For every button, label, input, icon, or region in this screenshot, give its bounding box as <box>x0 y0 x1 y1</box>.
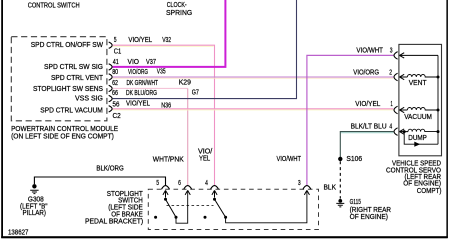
svg-text:K29: K29 <box>179 80 191 87</box>
stoplight pin 6 connector arc <box>184 186 192 190</box>
svg-text:SWITCH: SWITCH <box>118 198 143 205</box>
svg-text:SPRING: SPRING <box>166 10 192 17</box>
svg-text:OF ENGINE): OF ENGINE) <box>350 214 388 221</box>
svg-text:62: 62 <box>112 80 118 87</box>
servo pin 3 connector arc <box>394 52 398 60</box>
wire N36 VIO/YEL: PCM pin 56 to servo pin 1 <box>113 108 394 110</box>
svg-text:PEDAL BRACKET): PEDAL BRACKET) <box>85 219 143 226</box>
stoplight pin 3 connector arc <box>303 186 311 190</box>
svg-text:VIO/WHT: VIO/WHT <box>356 48 383 55</box>
svg-text:S106: S106 <box>346 156 362 163</box>
svg-text:2: 2 <box>389 70 392 77</box>
svg-text:138627: 138627 <box>8 230 28 237</box>
wire BLK/ORG: G308 to stoplight switch pin 5 <box>34 177 165 186</box>
svg-text:CLOCK-: CLOCK- <box>167 2 188 9</box>
stoplight pin 4 connector arc <box>211 186 219 190</box>
stoplight pin 4 arrow <box>212 190 217 197</box>
svg-text:80: 80 <box>112 69 118 76</box>
svg-text:BLK/ORG: BLK/ORG <box>96 166 123 173</box>
wire V35 orange tracer <box>113 77 394 79</box>
svg-text:WHT/PNK: WHT/PNK <box>153 157 184 164</box>
PCM connector pin 66 arc <box>109 95 112 101</box>
wire G7 DK BLU/ORG: PCM pin 66 up to VSS <box>113 0 297 99</box>
svg-text:BLK/LT BLU: BLK/LT BLU <box>351 124 387 131</box>
svg-text:VIO/ORG: VIO/ORG <box>128 69 148 76</box>
svg-text:4: 4 <box>205 180 208 187</box>
vehicle speed control servo box <box>399 44 442 155</box>
svg-text:VSS SIG: VSS SIG <box>75 95 103 102</box>
stoplight pin 3 arrow <box>304 190 309 195</box>
svg-text:56: 56 <box>113 101 120 108</box>
junction dot bus vacuum <box>437 109 440 112</box>
svg-text:VIO: VIO <box>128 59 140 66</box>
svg-text:VENT: VENT <box>409 80 428 87</box>
svg-text:G7: G7 <box>192 89 199 96</box>
ground G115 <box>338 199 342 203</box>
svg-text:CONTROL SWITCH: CONTROL SWITCH <box>28 3 80 10</box>
svg-text:VIO/WHT: VIO/WHT <box>277 156 302 163</box>
powertrain control module dashed box <box>11 37 107 121</box>
wire V37 VIO: PCM pin 41 up to clockspring <box>113 0 226 67</box>
svg-text:VIO/YEL: VIO/YEL <box>128 37 152 44</box>
ground G308 <box>32 184 36 188</box>
svg-text:SPD CTRL ON/OFF SW: SPD CTRL ON/OFF SW <box>31 42 104 49</box>
wire BLK/LT BLU light blue tracer <box>341 132 394 134</box>
DUMP solenoid coil <box>408 129 438 131</box>
switch pole 2 contact dot <box>213 198 216 201</box>
svg-text:VIO/: VIO/ <box>198 148 212 155</box>
dump bypass loop <box>404 132 438 145</box>
svg-text:5: 5 <box>156 180 159 187</box>
switch pole 1 throw dot <box>175 216 178 219</box>
svg-text:V32: V32 <box>162 37 171 44</box>
node S106 <box>338 157 342 161</box>
stoplight switch dashed box <box>148 189 318 229</box>
svg-text:DK GRN/WHT: DK GRN/WHT <box>127 80 159 87</box>
switch pole 1 blade <box>166 199 177 217</box>
svg-text:POWERTRAIN CONTROL MODULE: POWERTRAIN CONTROL MODULE <box>11 126 118 133</box>
svg-text:VIO/ORG: VIO/ORG <box>353 70 379 77</box>
svg-text:STOPLIGHT SW SENS: STOPLIGHT SW SENS <box>33 86 103 93</box>
wire pole2 to pin 3 <box>226 191 307 223</box>
PCM connector pin 41 arc <box>109 64 112 70</box>
servo pin 3 arrow <box>400 53 439 58</box>
VENT solenoid coil <box>407 74 438 77</box>
servo pin 4 connector arc <box>394 128 398 136</box>
svg-text:DUMP: DUMP <box>408 135 427 142</box>
svg-text:1: 1 <box>391 101 393 108</box>
wire V32 VIO/YEL: PCM pin 5 to stoplight switch pin 4 <box>113 45 215 185</box>
switch pole 2 blade <box>215 199 226 217</box>
wire BLK/LT BLU: servo pin 4 to S106 <box>340 132 393 157</box>
stoplight pin 5 connector arc <box>162 186 170 190</box>
svg-text:VIO/YEL: VIO/YEL <box>126 101 150 108</box>
wire V35 VIO/ORG: PCM pin 80 to servo pin 2 <box>113 76 394 78</box>
svg-text:6: 6 <box>178 180 181 187</box>
svg-text:5: 5 <box>114 37 117 44</box>
svg-text:41: 41 <box>113 59 119 66</box>
servo pin 4 arrow <box>400 129 409 134</box>
svg-text:YEL: YEL <box>199 155 210 162</box>
svg-text:VACUUM: VACUUM <box>404 114 432 121</box>
svg-text:OF ENGINE): OF ENGINE) <box>403 180 441 187</box>
svg-text:3: 3 <box>390 48 393 55</box>
junction dot bus vent <box>437 76 440 79</box>
stoplight pin 6 arrow <box>185 190 190 195</box>
junction dot bus dump <box>437 130 440 133</box>
svg-text:VIO/YEL: VIO/YEL <box>355 101 380 108</box>
svg-text:BLK: BLK <box>324 185 337 192</box>
svg-text:COMPT): COMPT) <box>417 188 442 195</box>
svg-text:3: 3 <box>298 180 301 187</box>
switch pole 1 unused contact dot <box>154 216 157 219</box>
PCM connector pin 5 arc <box>109 42 112 48</box>
VACUUM solenoid coil <box>407 107 438 110</box>
wire BLK: S106 to G115 dashed <box>339 161 341 198</box>
servo pin 2 connector arc <box>394 73 398 81</box>
svg-text:4: 4 <box>389 124 392 131</box>
svg-text:SPD CTRL VACUUM: SPD CTRL VACUUM <box>40 108 103 115</box>
svg-text:SPD CTRL SW SIG: SPD CTRL SW SIG <box>44 64 103 71</box>
wire N36 yellow tracer <box>113 109 394 111</box>
PCM connector pin 56 arc <box>109 106 112 112</box>
page border left <box>1 0 3 238</box>
svg-text:66: 66 <box>112 90 118 97</box>
switch pole 2 throw dot <box>224 216 227 219</box>
wire V32 yellow tracer <box>113 45 214 47</box>
svg-text:DK BLU/ORG: DK BLU/ORG <box>126 90 157 97</box>
wire K29 / WHT-PNK: PCM pin 62 to stoplight switch pin 6 <box>113 87 188 89</box>
switch pole 2 unused contact dot <box>204 216 207 219</box>
page border right <box>446 0 448 238</box>
page border bottom <box>1 236 448 238</box>
servo pin 1 arrow <box>400 107 408 112</box>
svg-text:SPD CTRL VENT: SPD CTRL VENT <box>51 75 104 82</box>
wire pole1 to pin 6 <box>176 191 188 223</box>
servo pin 1 connector arc <box>394 106 398 114</box>
junction dot dump left <box>403 130 406 133</box>
svg-text:PILLAR): PILLAR) <box>23 210 47 217</box>
wire VIO/WHT: servo pin 3 to stoplight switch pin 3 <box>307 55 394 185</box>
svg-text:V35: V35 <box>157 69 166 76</box>
svg-text:C1: C1 <box>114 49 122 56</box>
mechanical linkage dashed <box>167 205 214 207</box>
svg-text:G115: G115 <box>350 199 361 206</box>
PCM connector pin 80 arc <box>109 74 112 80</box>
servo internal bus <box>437 55 439 144</box>
switch pole 1 contact dot <box>164 198 167 201</box>
svg-text:V37: V37 <box>146 59 156 66</box>
svg-text:(ON LEFT SIDE OF ENG COMPT): (ON LEFT SIDE OF ENG COMPT) <box>11 133 114 140</box>
stoplight pin 5 arrow <box>163 190 168 197</box>
PCM connector pin 62 arc <box>109 85 112 91</box>
servo pin 2 arrow <box>400 74 408 79</box>
svg-text:C2: C2 <box>113 113 121 120</box>
dump valve triangle <box>414 142 420 147</box>
